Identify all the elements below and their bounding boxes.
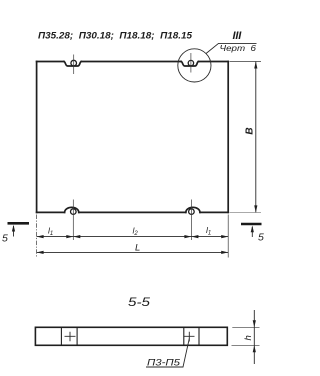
h dimension line xyxy=(253,310,255,364)
svg-text:Черт 6: Черт 6 xyxy=(220,43,257,53)
detail circle around top-right notch xyxy=(178,49,211,82)
section mark right arrow xyxy=(251,227,253,237)
B dimension extension top xyxy=(230,61,262,63)
B dimension extension bottom xyxy=(230,211,262,213)
dimension line l2 xyxy=(73,236,191,238)
wire bottom edge left segment xyxy=(37,211,65,213)
svg-text:L: L xyxy=(135,243,140,254)
centerline bottom-left notch extension to dimension line xyxy=(72,200,74,241)
h dimension arrow bottom xyxy=(253,345,256,352)
dimension line l1 left xyxy=(37,236,74,238)
section rectangle xyxy=(35,327,227,345)
svg-text:П35.28; П30.18; П18.18; П18: П35.28; П30.18; П18.18; П18.15 xyxy=(38,31,193,41)
svg-text:h: h xyxy=(243,335,254,340)
h dimension extension bottom xyxy=(232,344,260,346)
wire left edge xyxy=(36,62,38,213)
B dimension line xyxy=(255,62,257,213)
section internal line right b xyxy=(198,327,200,345)
section mark left thick bar xyxy=(8,222,30,225)
loop section mark left (plus) xyxy=(65,332,76,342)
leader to П3-П5 xyxy=(146,339,189,368)
extension line panel left edge (dash-dot) xyxy=(36,215,38,258)
centerline bottom-right notch extension to dimension line xyxy=(190,200,192,241)
dimension line l1 right xyxy=(191,236,228,238)
svg-text:5: 5 xyxy=(258,232,264,244)
svg-text:III: III xyxy=(233,30,243,42)
loop circle bottom-right xyxy=(189,209,195,215)
svg-text:5-5: 5-5 xyxy=(128,295,150,309)
centerline top-left notch xyxy=(73,55,75,75)
centerline top-right notch xyxy=(190,53,192,73)
notch bottom-right arch xyxy=(186,207,200,212)
loop circle top-left xyxy=(71,60,77,66)
wire bottom edge right segment xyxy=(200,211,228,213)
h dimension arrow top xyxy=(253,320,256,327)
wire top edge left segment xyxy=(37,61,64,63)
loop circle top-right xyxy=(188,60,193,65)
section mark right thick bar xyxy=(241,223,262,226)
svg-text:5: 5 xyxy=(2,233,8,245)
h dimension extension top xyxy=(232,326,259,328)
loop section mark right (plus) xyxy=(184,332,195,342)
section internal line left b xyxy=(76,327,78,345)
section mark left arrow xyxy=(13,226,15,237)
wire top edge middle segment xyxy=(81,61,181,63)
notch top-right dip xyxy=(181,62,198,67)
wire right edge xyxy=(227,62,229,213)
B dimension arrow bottom xyxy=(254,205,257,212)
notch top-left dip xyxy=(64,62,81,67)
section internal line left a xyxy=(60,327,62,345)
svg-text:П3-П5: П3-П5 xyxy=(147,357,181,367)
loop circle bottom-left xyxy=(71,209,77,215)
extension line panel right edge xyxy=(227,215,229,258)
wire bottom edge middle segment xyxy=(79,211,186,213)
B dimension arrow top xyxy=(254,62,257,69)
wire top edge right segment xyxy=(199,61,229,63)
section internal line right a xyxy=(183,327,185,345)
svg-text:В: В xyxy=(244,127,255,134)
notch bottom-left arch xyxy=(65,207,79,212)
panel outline xyxy=(37,62,229,213)
dimension line L xyxy=(37,251,229,253)
leader from detail circle to shelf xyxy=(206,43,256,53)
